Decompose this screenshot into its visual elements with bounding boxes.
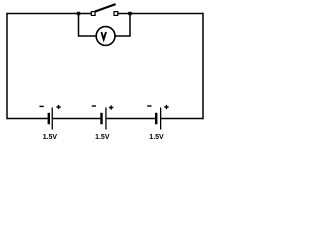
wire bottom segment 2	[53, 118, 100, 120]
wire top-left segment	[7, 13, 91, 15]
switch S1 left terminal	[91, 12, 95, 16]
voltmeter V1 letter V	[101, 32, 106, 39]
switch S1 blade (open)	[95, 4, 116, 12]
cell B3 minus sign	[147, 105, 151, 107]
wire bottom segment 4	[161, 118, 203, 120]
cell B3 negative plate	[155, 113, 157, 125]
wire bottom segment 3	[107, 118, 155, 120]
wire bottom segment 1	[7, 118, 48, 120]
cell B2 negative plate	[100, 113, 102, 125]
wire voltmeter branch left	[79, 14, 97, 37]
cell B2 plus sign	[109, 105, 113, 109]
wire voltmeter branch right	[115, 14, 130, 37]
cell B1 minus sign	[40, 105, 44, 107]
cell B3 plus sign	[164, 105, 168, 109]
cell B2 minus sign	[92, 105, 96, 107]
cell B1 plus sign	[56, 105, 60, 109]
svg-text:1.5V: 1.5V	[95, 134, 110, 141]
wire left side	[6, 13, 8, 120]
cell B1 negative plate	[48, 113, 50, 125]
junction node right	[128, 12, 131, 15]
voltmeter V1 body	[96, 27, 115, 46]
switch S1 right terminal	[114, 12, 118, 16]
wire top-right segment	[118, 13, 203, 15]
wire right side	[202, 13, 204, 120]
cell B2 positive plate	[105, 108, 106, 130]
cell B1 positive plate	[52, 108, 53, 130]
svg-text:1.5V: 1.5V	[149, 134, 164, 141]
cell B3 positive plate	[160, 108, 161, 130]
svg-text:1.5V: 1.5V	[43, 134, 58, 141]
junction node left	[77, 12, 80, 15]
